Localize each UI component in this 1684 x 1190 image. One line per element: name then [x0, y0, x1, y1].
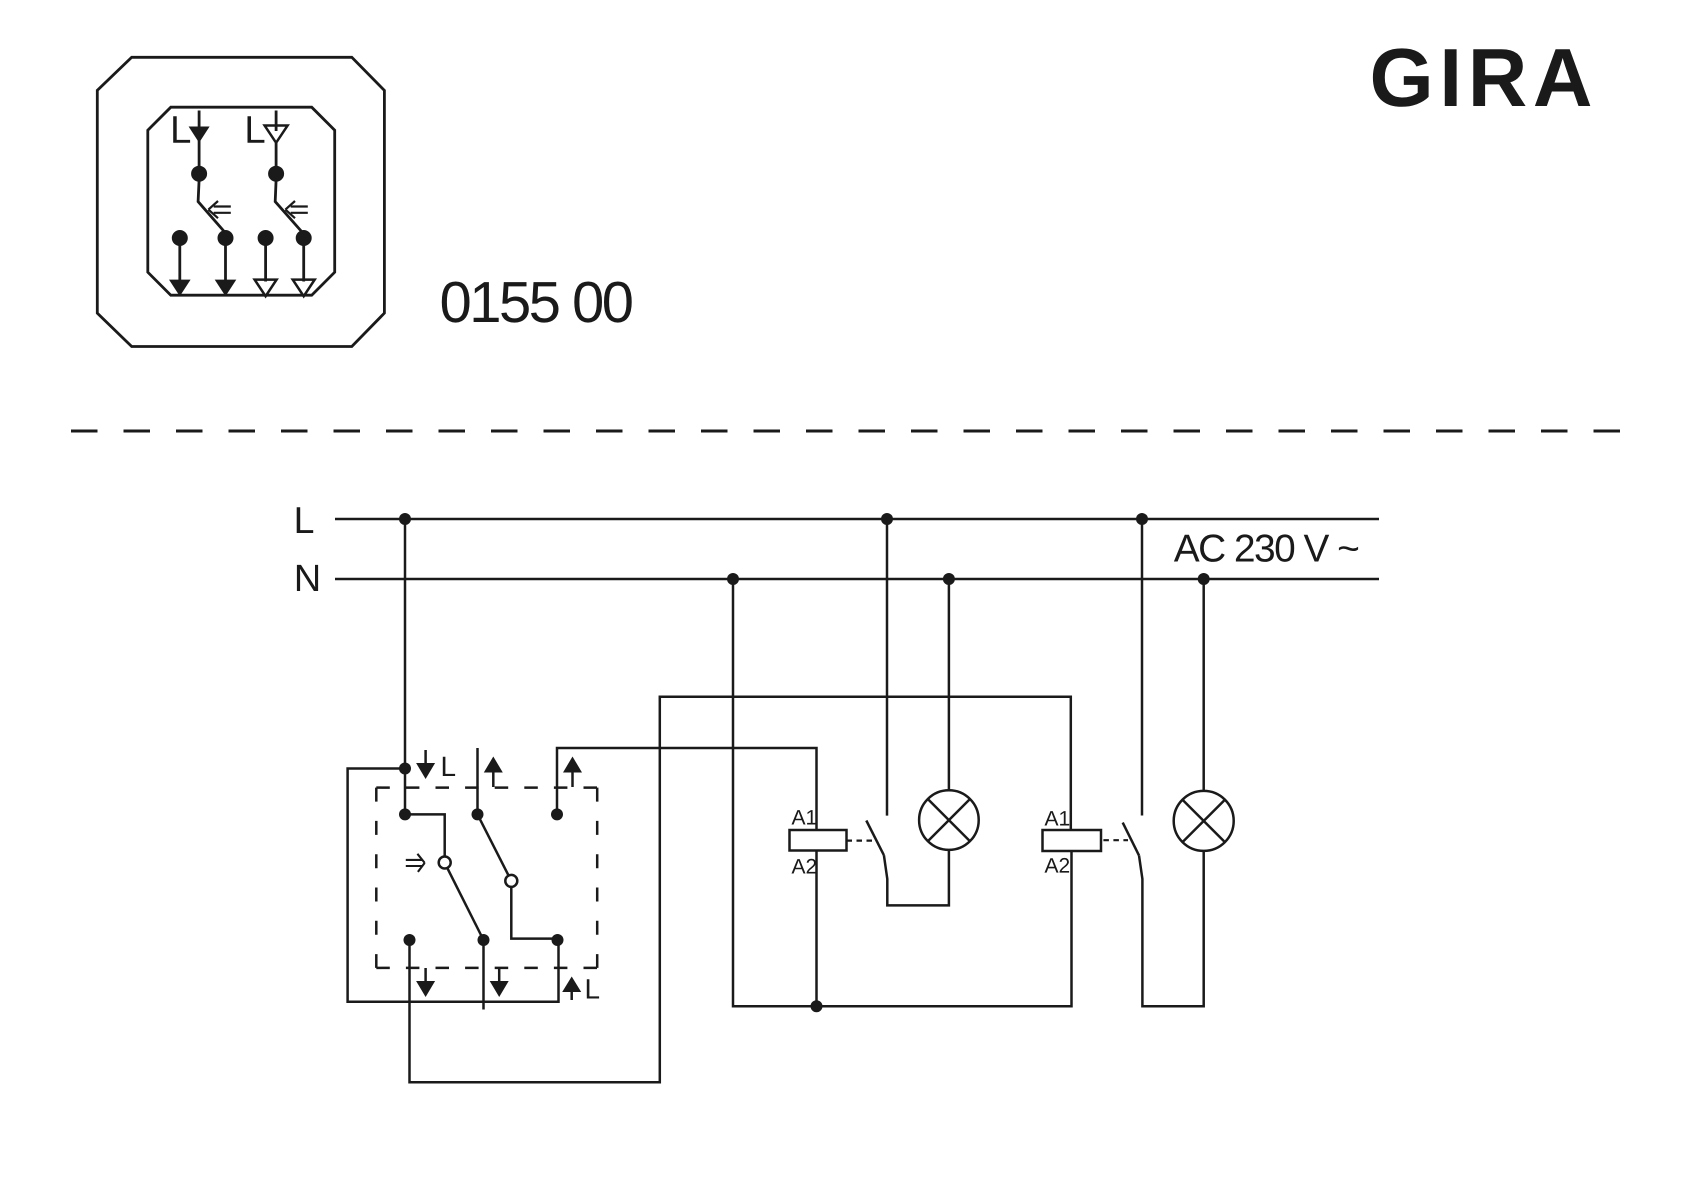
wire: N bus: [335, 578, 1379, 581]
label A1 (K2): [1045, 811, 1070, 825]
arrow open down (right pole input): [265, 126, 288, 143]
switch 1 blade: [447, 868, 483, 940]
switch insert symbol: outer octagon frame: [97, 57, 384, 346]
switch blade right pole: [275, 180, 303, 233]
wire: L entry into terminal 1: [404, 769, 407, 815]
relay K1 coil box: [790, 830, 847, 851]
arrow filled up (terminal 3): [563, 757, 582, 788]
wire: L loop around switch unit to return terminal: [348, 769, 559, 1002]
wire: K2 contact to lamp E2: [1139, 851, 1204, 1006]
K1 contact blade: [866, 821, 884, 856]
switch blade left pole: [198, 180, 225, 233]
switch 2 blade: [478, 814, 509, 874]
pivot circle switch 2: [505, 875, 517, 887]
relay K2 coil box: [1043, 830, 1102, 851]
wire: K1 contact to lamp E1: [884, 850, 949, 906]
label AC 230 V ~: [1174, 534, 1358, 562]
wire: left output 1 down: [178, 238, 181, 281]
arrow filled down (left output 2): [215, 280, 237, 297]
arrow filled down (left output 1): [169, 280, 191, 297]
arrow left double (actuation, left pole): [208, 201, 230, 218]
switch insert symbol: inner octagon frame: [148, 107, 335, 295]
node: right pole output 1: [258, 230, 274, 246]
K2 contact blade: [1123, 823, 1139, 856]
pivot circle switch 1: [439, 857, 451, 869]
node N1 on N bus: [727, 573, 739, 585]
arrow filled down (bottom terminal 2): [490, 968, 509, 997]
node: left pole output 2: [218, 230, 234, 246]
wire: K1 A2 down to N bus return: [815, 851, 818, 1007]
dashed actuator link K2: [1103, 839, 1128, 841]
arrow left double (actuation, right pole): [285, 201, 307, 218]
label L (left pole input): [173, 116, 190, 143]
label A2 (K2): [1045, 858, 1070, 873]
wire: L bus: [335, 518, 1379, 521]
wire: switch 2 pivot to node F: [511, 887, 557, 939]
arrow right double (actuation): [406, 854, 425, 872]
arrow open down (right output 1): [255, 280, 277, 297]
node: K1 A2 junction on N return: [811, 1000, 823, 1012]
wire: node E stub down: [482, 940, 485, 1010]
node L3 on L bus: [1136, 513, 1148, 525]
node: right pole output 2: [296, 230, 312, 246]
wire: N feed down and over to coils A2: [733, 579, 1072, 1006]
arrow filled up (terminal 2): [484, 757, 503, 788]
arrow filled down (left pole input): [189, 127, 210, 143]
label L at bottom return terminal: [587, 979, 599, 998]
node C: switch output to K1: [551, 808, 563, 820]
node: switch L entry: [399, 763, 411, 775]
label A1 (K1): [792, 810, 817, 824]
dashed box: switch unit outline: [376, 788, 597, 968]
lamp E2: [1174, 791, 1234, 851]
label L bus: [297, 507, 314, 533]
wire: left pole input: [198, 111, 201, 169]
node: left pole output 1: [172, 230, 188, 246]
arrow open down (right output 2): [293, 280, 315, 297]
node: right pole common: [268, 166, 284, 182]
arrow filled down (terminal 1 in): [416, 750, 435, 779]
node D: switch output 1 (bottom): [404, 934, 416, 946]
node E: switch 1 blade contact (bottom): [478, 934, 490, 946]
node B: switch 2 common: [472, 808, 484, 820]
wire: lamp E2 to N bus: [1202, 579, 1205, 791]
node A: switch 1 common: [399, 808, 411, 820]
label L at terminal 1: [443, 757, 455, 776]
arrow filled up (bottom L return): [562, 977, 581, 1001]
wire: L feed down to switch unit: [404, 519, 407, 769]
node F: L return terminal (bottom): [552, 934, 564, 946]
wire: L down to K1 contact: [886, 519, 889, 816]
wire: switch 1 common to pivot: [405, 814, 445, 856]
dashed actuator link K1: [847, 839, 875, 841]
label A2 (K1): [792, 859, 817, 874]
part number 0155 00: [442, 282, 632, 323]
wire: right pole input below arrow: [275, 143, 278, 168]
label L (right pole input): [248, 116, 265, 143]
wire: terminal 3 to relay K1 coil A1: [557, 748, 817, 830]
dashed divider line: [71, 430, 1622, 433]
node L2 on L bus: [881, 513, 893, 525]
wire: terminal 2 stub: [476, 748, 479, 814]
wire: right output 1 down: [264, 238, 267, 282]
wire: lamp E1 to N bus: [948, 579, 951, 790]
wire: right pole input: [275, 111, 278, 132]
wire: node D down and over to relay K2 coil A1: [410, 697, 1071, 1082]
wire: right output 2 down: [302, 238, 305, 282]
arrow filled down (bottom terminal 1): [416, 968, 435, 997]
node N3 on N bus: [1198, 573, 1210, 585]
lamp E1: [919, 790, 979, 850]
node L1 on L bus: [399, 513, 411, 525]
GIRA logo: [1373, 48, 1590, 106]
node: left pole common: [191, 166, 207, 182]
node N2 on N bus: [943, 573, 955, 585]
wire: left output 2 down: [224, 238, 227, 281]
label N bus: [297, 565, 318, 591]
wire: L down to K2 contact: [1141, 519, 1144, 816]
